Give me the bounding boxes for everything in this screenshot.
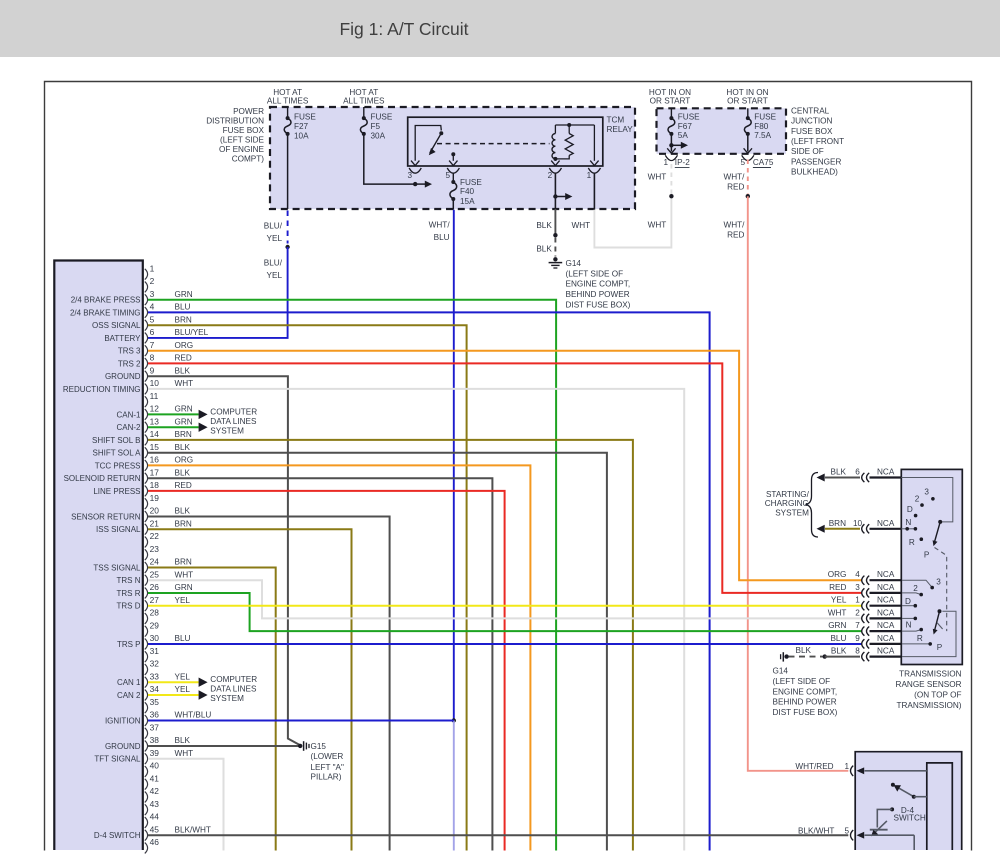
- svg-text:17: 17: [150, 468, 160, 478]
- svg-text:41: 41: [150, 774, 160, 784]
- svg-text:2: 2: [855, 608, 860, 617]
- svg-text:BLK: BLK: [536, 244, 552, 253]
- pin 42: [145, 792, 148, 803]
- svg-text:7.5A: 7.5A: [754, 131, 771, 140]
- svg-text:3: 3: [407, 171, 412, 180]
- svg-text:ISS SIGNAL: ISS SIGNAL: [96, 525, 141, 534]
- relay coil: [552, 134, 555, 159]
- svg-text:RED: RED: [175, 354, 192, 363]
- relay coil resistor: [565, 134, 573, 156]
- svg-text:NCA: NCA: [877, 634, 895, 643]
- svg-text:5: 5: [150, 315, 155, 325]
- svg-text:GRN: GRN: [828, 621, 846, 630]
- svg-text:SYSTEM: SYSTEM: [210, 426, 244, 435]
- svg-text:BRN: BRN: [175, 430, 192, 439]
- node BLK splice: [823, 654, 827, 658]
- svg-text:Fig 1: A/T Circuit: Fig 1: A/T Circuit: [339, 19, 468, 39]
- pin 19: [145, 498, 148, 509]
- svg-text:19: 19: [150, 493, 160, 503]
- wire pin 10 WHT: [148, 389, 684, 851]
- svg-text:BLU: BLU: [175, 634, 191, 643]
- svg-text:COMPUTER: COMPUTER: [210, 407, 257, 416]
- fuse F27 10A: [287, 107, 289, 118]
- svg-text:(LEFT SIDE OF: (LEFT SIDE OF: [773, 677, 831, 686]
- svg-text:FUSE BOX: FUSE BOX: [223, 126, 265, 135]
- svg-text:ALL TIMES: ALL TIMES: [267, 97, 309, 106]
- wire pin 36 WHT/BLU: [148, 720, 454, 722]
- svg-text:SYSTEM: SYSTEM: [775, 508, 809, 517]
- svg-text:TRS D: TRS D: [117, 602, 141, 611]
- svg-text:FUSE BOX: FUSE BOX: [791, 127, 833, 136]
- svg-text:F80: F80: [754, 122, 769, 131]
- ground G14 (near sensor): [780, 654, 782, 659]
- svg-text:RED: RED: [727, 183, 744, 192]
- connector row BLU 9 NCA: [862, 639, 865, 648]
- node WHT/RED splice: [746, 194, 750, 198]
- svg-text:R: R: [917, 634, 923, 643]
- svg-text:44: 44: [150, 812, 160, 822]
- svg-text:3: 3: [924, 487, 929, 496]
- svg-text:16: 16: [150, 455, 160, 465]
- svg-text:39: 39: [150, 748, 160, 758]
- svg-text:20: 20: [150, 506, 160, 516]
- svg-text:GRN: GRN: [175, 417, 193, 426]
- svg-text:F27: F27: [294, 122, 309, 131]
- node BLK splice: [553, 233, 557, 237]
- fuse F67 5A: [670, 108, 672, 118]
- relay switch pole wire: [415, 126, 441, 161]
- svg-text:FUSE: FUSE: [460, 178, 482, 187]
- svg-text:1: 1: [663, 158, 668, 167]
- wire WHT/BLU from F40 down: [453, 210, 455, 721]
- svg-text:WHT/BLU: WHT/BLU: [175, 711, 212, 720]
- svg-text:12: 12: [150, 404, 160, 414]
- wire pin 20 BLK: [148, 517, 390, 851]
- svg-text:ORG: ORG: [175, 456, 194, 465]
- svg-text:F67: F67: [678, 122, 693, 131]
- svg-text:N: N: [906, 621, 912, 630]
- svg-text:3: 3: [936, 577, 941, 586]
- branch arrow right from F67 node: [671, 144, 681, 146]
- svg-text:P: P: [924, 551, 930, 560]
- svg-text:WHT: WHT: [648, 221, 667, 230]
- svg-text:NCA: NCA: [877, 468, 895, 477]
- svg-text:4: 4: [150, 302, 155, 312]
- relay pin 2 lead: [554, 159, 556, 161]
- svg-text:21: 21: [150, 519, 160, 529]
- svg-text:TRS N: TRS N: [117, 576, 141, 585]
- TCM connector box: [54, 261, 143, 851]
- svg-text:9: 9: [150, 366, 155, 376]
- svg-text:G14: G14: [773, 666, 789, 675]
- svg-text:TFT SIGNAL: TFT SIGNAL: [94, 755, 141, 764]
- pin 26: [145, 588, 148, 599]
- svg-text:RED: RED: [175, 481, 192, 490]
- svg-text:4: 4: [855, 570, 860, 579]
- svg-text:SYSTEM: SYSTEM: [210, 694, 244, 703]
- wire BLK to row 8: [825, 656, 860, 658]
- wire pin 9 BLK: [148, 376, 300, 745]
- wire pin 3 GRN: [148, 300, 556, 851]
- svg-text:ORG: ORG: [175, 341, 194, 350]
- pin 20: [145, 511, 148, 522]
- wire BLK 6 to starting/charging: [817, 474, 825, 482]
- pin 37: [145, 728, 148, 739]
- wire WHT (faint) continuation down: [453, 721, 455, 851]
- wire pin 5 inside D-4: [865, 834, 915, 836]
- svg-text:34: 34: [150, 684, 160, 694]
- svg-text:TRS P: TRS P: [117, 640, 141, 649]
- pin 10: [145, 384, 148, 395]
- svg-text:7: 7: [150, 340, 155, 350]
- svg-text:STARTING/: STARTING/: [766, 490, 810, 499]
- svg-text:37: 37: [150, 723, 160, 733]
- relay pin 3 arrow/connector: [411, 161, 419, 166]
- svg-text:D: D: [905, 597, 911, 606]
- svg-text:TRS R: TRS R: [117, 589, 141, 598]
- pin 1: [145, 269, 148, 280]
- power distribution fuse box: [270, 107, 635, 209]
- wire pin 39 WHT: [148, 759, 224, 851]
- svg-text:CHARGING: CHARGING: [765, 499, 809, 508]
- svg-text:CAN-1: CAN-1: [116, 411, 141, 420]
- relay pin 5 arrow/connector: [449, 161, 457, 166]
- svg-text:D: D: [907, 505, 913, 514]
- brace starting/charging system: [806, 473, 819, 538]
- svg-text:BLK: BLK: [831, 468, 847, 477]
- svg-text:IP-2: IP-2: [675, 158, 690, 167]
- svg-text:DATA LINES: DATA LINES: [210, 417, 257, 426]
- svg-text:23: 23: [150, 544, 160, 554]
- svg-text:BLU: BLU: [830, 634, 846, 643]
- wire pin 13 GRN to data lines: [148, 426, 199, 428]
- svg-text:BLK: BLK: [175, 443, 191, 452]
- relay pin 1 arrow/connector: [590, 161, 598, 166]
- svg-text:BRN: BRN: [829, 519, 846, 528]
- svg-text:NCA: NCA: [877, 621, 895, 630]
- pin 12: [145, 409, 148, 420]
- pin 31: [145, 651, 148, 662]
- svg-text:(LEFT SIDE OF: (LEFT SIDE OF: [566, 269, 624, 278]
- wire pin 4 BLU: [148, 312, 710, 850]
- svg-text:5: 5: [740, 158, 745, 167]
- svg-text:R: R: [909, 538, 915, 547]
- svg-text:FUSE: FUSE: [754, 113, 776, 122]
- D-4 inner connector block: [927, 763, 953, 850]
- svg-text:TRANSMISSION): TRANSMISSION): [896, 701, 961, 710]
- svg-text:DIST FUSE BOX): DIST FUSE BOX): [773, 708, 838, 717]
- svg-text:BLU: BLU: [434, 233, 450, 242]
- svg-text:CA75: CA75: [753, 158, 774, 167]
- D-4 lower contact: [890, 807, 894, 811]
- svg-text:WHT: WHT: [175, 379, 194, 388]
- wire pin 25 WHT: [148, 580, 862, 618]
- relay switch arm: [430, 133, 442, 153]
- svg-text:BLK: BLK: [536, 221, 552, 230]
- svg-text:5: 5: [845, 826, 850, 835]
- svg-text:BRN: BRN: [175, 558, 192, 567]
- connector D-4 pin 1: [851, 766, 854, 776]
- svg-text:18: 18: [150, 480, 160, 490]
- svg-text:YEL: YEL: [267, 234, 283, 243]
- svg-text:BLK: BLK: [175, 366, 191, 375]
- svg-text:RED: RED: [829, 583, 846, 592]
- connector row GRN 7 NCA: [862, 627, 865, 636]
- svg-text:GRN: GRN: [175, 290, 193, 299]
- svg-text:ENGINE COMPT,: ENGINE COMPT,: [566, 280, 631, 289]
- svg-text:GROUND: GROUND: [105, 742, 141, 751]
- svg-text:GRN: GRN: [175, 405, 193, 414]
- svg-text:N: N: [905, 518, 911, 527]
- pin 15: [145, 447, 148, 458]
- pin arrow into CA75: [744, 148, 752, 153]
- svg-text:OR START: OR START: [727, 97, 768, 106]
- svg-text:15: 15: [150, 442, 160, 452]
- svg-text:36: 36: [150, 710, 160, 720]
- pin 3: [145, 294, 148, 305]
- TCM relay box: [408, 117, 603, 166]
- pin 41: [145, 779, 148, 790]
- svg-text:26: 26: [150, 582, 160, 592]
- svg-text:YEL: YEL: [175, 685, 191, 694]
- connector row 6: [862, 473, 865, 482]
- svg-text:PASSENGER: PASSENGER: [791, 157, 841, 166]
- svg-text:G14: G14: [566, 259, 582, 268]
- svg-text:1: 1: [855, 596, 860, 605]
- wire pin 14 BRN: [148, 440, 633, 851]
- svg-text:NCA: NCA: [877, 647, 895, 656]
- svg-text:DIST FUSE BOX): DIST FUSE BOX): [566, 300, 631, 309]
- pin 38: [145, 741, 148, 752]
- wire pin 5 BRN: [148, 325, 467, 850]
- svg-text:CAN 1: CAN 1: [117, 678, 141, 687]
- connector row ORG 4 NCA: [862, 576, 865, 585]
- wire F40 to box bottom: [452, 199, 454, 210]
- svg-text:10: 10: [853, 519, 863, 528]
- svg-text:6: 6: [855, 468, 860, 477]
- connector IP-2: [665, 155, 677, 160]
- svg-text:8: 8: [150, 353, 155, 363]
- pin 30: [145, 639, 148, 650]
- wire pin 12 GRN to data lines: [148, 413, 199, 415]
- relay coil top bus: [555, 124, 594, 126]
- svg-text:BEHIND POWER: BEHIND POWER: [773, 698, 837, 707]
- svg-text:SIDE OF: SIDE OF: [791, 147, 824, 156]
- svg-text:RELAY: RELAY: [607, 125, 634, 134]
- svg-text:WHT: WHT: [175, 570, 194, 579]
- svg-text:7: 7: [855, 621, 860, 630]
- svg-text:5: 5: [446, 171, 451, 180]
- pin 23: [145, 549, 148, 560]
- svg-text:DISTRIBUTION: DISTRIBUTION: [206, 116, 264, 125]
- svg-text:REDUCTION TIMING: REDUCTION TIMING: [63, 385, 141, 394]
- pin 35: [145, 702, 148, 713]
- branch arrow right from pin3 node: [415, 183, 425, 185]
- pin 17: [145, 473, 148, 484]
- svg-text:BEHIND POWER: BEHIND POWER: [566, 290, 630, 299]
- wire BLK to splice: [554, 197, 556, 210]
- svg-text:NCA: NCA: [877, 583, 895, 592]
- TRS lower switch internals: [902, 580, 932, 587]
- pin 34: [145, 690, 148, 701]
- svg-text:JUNCTION: JUNCTION: [791, 117, 832, 126]
- svg-text:ENGINE COMPT,: ENGINE COMPT,: [773, 687, 838, 696]
- svg-text:FUSE: FUSE: [371, 112, 393, 121]
- wire BLU/YEL dashed below F27: [287, 211, 289, 244]
- svg-text:2: 2: [913, 584, 918, 593]
- node relay pin3 / F5 junction: [413, 182, 417, 186]
- wire BLU/YEL to TCM pin 6: [148, 247, 288, 338]
- svg-text:COMPT): COMPT): [232, 154, 265, 163]
- connector CA75: [742, 155, 754, 160]
- branch arrow right from BLK node: [555, 196, 565, 198]
- wire pin 34 YEL to data lines: [148, 694, 199, 696]
- svg-text:NCA: NCA: [877, 519, 895, 528]
- svg-text:BLK/WHT: BLK/WHT: [175, 825, 211, 834]
- pin 2: [145, 282, 148, 293]
- svg-text:ORG: ORG: [828, 570, 847, 579]
- svg-text:30A: 30A: [371, 131, 386, 140]
- svg-text:24: 24: [150, 557, 160, 567]
- wire pin 16 ORG: [148, 465, 530, 850]
- svg-text:43: 43: [150, 799, 160, 809]
- wire F5 to relay pin 3 node: [364, 134, 415, 184]
- connector row WHT 2 NCA: [862, 614, 865, 623]
- relay fixed contact (pin 5): [451, 152, 455, 156]
- wire WHT dashed to IP-2: [670, 160, 672, 195]
- pin 22: [145, 537, 148, 548]
- pin 14: [145, 435, 148, 446]
- svg-text:3: 3: [855, 583, 860, 592]
- relay pin 1 lead: [593, 125, 595, 161]
- svg-text:27: 27: [150, 595, 160, 605]
- svg-text:NCA: NCA: [877, 608, 895, 617]
- relay switch pivot contact: [439, 131, 443, 135]
- svg-text:FUSE: FUSE: [294, 112, 316, 121]
- wire pin 33 YEL to data lines: [148, 681, 199, 683]
- node coil/resistor top: [567, 123, 571, 127]
- svg-text:SWITCH: SWITCH: [894, 814, 926, 823]
- svg-text:46: 46: [150, 837, 160, 847]
- svg-text:LEFT "A": LEFT "A": [311, 763, 345, 772]
- svg-text:WHT/RED: WHT/RED: [795, 762, 833, 771]
- svg-text:BLK/WHT: BLK/WHT: [798, 826, 834, 835]
- svg-text:29: 29: [150, 621, 160, 631]
- node WHT/BLU ignition junction: [452, 718, 456, 722]
- svg-text:YEL: YEL: [175, 672, 191, 681]
- svg-text:38: 38: [150, 735, 160, 745]
- pin 36: [145, 715, 148, 726]
- header bar: [0, 0, 1000, 57]
- svg-text:13: 13: [150, 417, 160, 427]
- svg-text:WHT/: WHT/: [429, 220, 451, 229]
- connector row 10: [862, 524, 865, 533]
- central junction fuse box: [657, 108, 787, 154]
- wire F27 down inside box: [287, 134, 289, 209]
- pin 43: [145, 804, 148, 815]
- wire pin 21 BRN: [148, 529, 352, 850]
- wire pin 38 BLK: [148, 745, 300, 747]
- svg-text:RANGE SENSOR: RANGE SENSOR: [896, 680, 962, 689]
- pin 6: [145, 333, 148, 344]
- svg-text:OSS SIGNAL: OSS SIGNAL: [92, 321, 141, 330]
- svg-text:2/4 BRAKE PRESS: 2/4 BRAKE PRESS: [71, 296, 141, 305]
- svg-text:TRS 3: TRS 3: [118, 347, 141, 356]
- connector row RED 3 NCA: [862, 588, 865, 597]
- svg-text:FUSE: FUSE: [678, 113, 700, 122]
- svg-text:POWER: POWER: [233, 107, 264, 116]
- svg-text:2: 2: [150, 276, 155, 286]
- svg-text:G15: G15: [311, 742, 327, 751]
- pin 29: [145, 626, 148, 637]
- pin 46: [145, 843, 148, 854]
- svg-text:BLK: BLK: [175, 736, 191, 745]
- svg-text:6: 6: [150, 327, 155, 337]
- svg-text:BLU/YEL: BLU/YEL: [175, 328, 209, 337]
- svg-text:BULKHEAD): BULKHEAD): [791, 168, 838, 177]
- svg-text:31: 31: [150, 646, 160, 656]
- pin 28: [145, 613, 148, 624]
- svg-text:F40: F40: [460, 187, 475, 196]
- svg-text:BLK: BLK: [175, 468, 191, 477]
- ground G15: [298, 744, 302, 748]
- svg-text:3: 3: [150, 289, 155, 299]
- svg-text:1: 1: [845, 762, 850, 771]
- svg-text:2/4 BRAKE TIMING: 2/4 BRAKE TIMING: [70, 309, 141, 318]
- svg-text:IGNITION: IGNITION: [105, 717, 141, 726]
- svg-text:(ON TOP OF: (ON TOP OF: [914, 691, 961, 700]
- pin 24: [145, 562, 148, 573]
- pin arrow into IP-2: [667, 148, 675, 153]
- D-4 switch box: [855, 752, 962, 850]
- pin 33: [145, 677, 148, 688]
- wire pin 26 GRN: [148, 593, 862, 631]
- svg-text:SHIFT SOL B: SHIFT SOL B: [92, 436, 140, 445]
- wire pin 30 BLU: [148, 643, 862, 645]
- pin 4: [145, 307, 148, 318]
- svg-text:2: 2: [548, 171, 553, 180]
- svg-text:RED: RED: [727, 231, 744, 240]
- svg-text:45: 45: [150, 825, 160, 835]
- svg-text:(LEFT FRONT: (LEFT FRONT: [791, 137, 844, 146]
- pin 8: [145, 358, 148, 369]
- svg-text:5A: 5A: [678, 131, 689, 140]
- svg-text:BLK: BLK: [831, 647, 847, 656]
- svg-text:SENSOR RETURN: SENSOR RETURN: [71, 513, 141, 522]
- svg-text:TCM: TCM: [607, 115, 625, 124]
- node F67 branch junction: [670, 134, 672, 152]
- svg-text:SOLENOID RETURN: SOLENOID RETURN: [64, 474, 141, 483]
- svg-text:OR START: OR START: [650, 97, 691, 106]
- svg-text:ALL TIMES: ALL TIMES: [343, 97, 385, 106]
- connector D-4 pin 5: [851, 830, 854, 840]
- D-4 switch arm: [891, 783, 895, 787]
- svg-text:9: 9: [855, 634, 860, 643]
- wire pin 27 YEL: [148, 605, 862, 607]
- wire F80 to CA75: [747, 134, 749, 152]
- svg-text:35: 35: [150, 697, 160, 707]
- wire WHT/RED dashed from CA75: [747, 160, 749, 195]
- wire pin 17 BLK: [148, 478, 492, 850]
- svg-text:CAN 2: CAN 2: [117, 691, 141, 700]
- svg-text:BLK: BLK: [175, 507, 191, 516]
- svg-text:1: 1: [150, 264, 155, 274]
- pin 44: [145, 817, 148, 828]
- pin 13: [145, 422, 148, 433]
- pin 45: [145, 830, 148, 841]
- wire BLK from relay pin 2: [554, 173, 556, 197]
- fuse F80 7.5A: [747, 108, 749, 118]
